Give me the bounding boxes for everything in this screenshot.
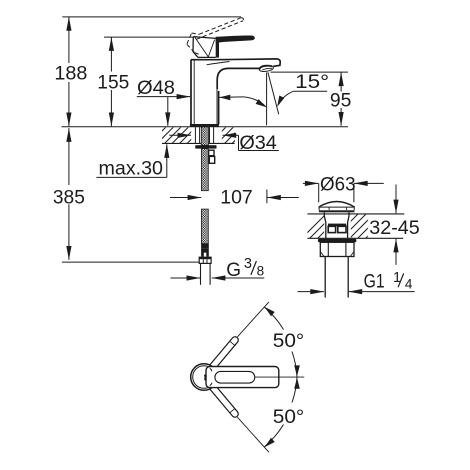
svg-text:95: 95 — [330, 91, 352, 112]
svg-text:Ø48: Ø48 — [137, 78, 175, 99]
svg-text:Ø34: Ø34 — [239, 133, 277, 154]
svg-text:50°: 50° — [273, 407, 305, 428]
svg-text:G: G — [226, 260, 241, 281]
svg-text:G1: G1 — [364, 271, 385, 292]
svg-text:Ø63: Ø63 — [320, 174, 356, 195]
svg-text:3: 3 — [244, 256, 252, 272]
svg-text:188: 188 — [54, 64, 87, 85]
svg-text:107: 107 — [220, 188, 253, 209]
svg-text:385: 385 — [53, 188, 85, 209]
svg-text:32-45: 32-45 — [369, 218, 420, 239]
svg-text:15°: 15° — [295, 72, 329, 93]
svg-text:8: 8 — [257, 264, 265, 279]
svg-text:4: 4 — [405, 277, 413, 292]
svg-text:155: 155 — [97, 72, 129, 93]
svg-text:50°: 50° — [273, 331, 305, 352]
svg-text:max.30: max.30 — [99, 158, 164, 179]
